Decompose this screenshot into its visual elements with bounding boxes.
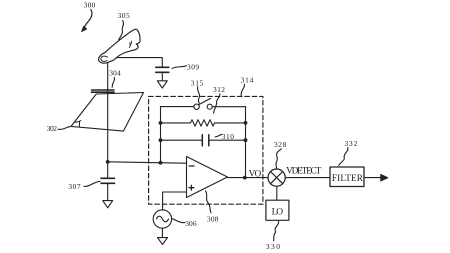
svg-text:VO: VO xyxy=(249,170,262,180)
svg-text:307: 307 xyxy=(68,182,80,191)
svg-text:305: 305 xyxy=(118,11,130,20)
svg-text:306: 306 xyxy=(185,219,197,228)
svg-text:332: 332 xyxy=(345,139,358,148)
svg-text:FILTER: FILTER xyxy=(332,173,364,183)
svg-text:328: 328 xyxy=(274,140,287,149)
svg-text:VDETECT: VDETECT xyxy=(286,167,321,177)
svg-text:304: 304 xyxy=(109,69,121,78)
svg-text:309: 309 xyxy=(187,63,199,72)
svg-text:308: 308 xyxy=(207,214,219,223)
svg-text:315: 315 xyxy=(191,78,204,87)
svg-text:314: 314 xyxy=(241,76,254,85)
svg-text:312: 312 xyxy=(213,85,225,94)
svg-text:LO: LO xyxy=(272,207,284,217)
svg-text:310: 310 xyxy=(222,132,234,141)
svg-text:302: 302 xyxy=(47,124,58,133)
svg-text:300: 300 xyxy=(84,1,96,10)
svg-text:330: 330 xyxy=(266,242,280,251)
